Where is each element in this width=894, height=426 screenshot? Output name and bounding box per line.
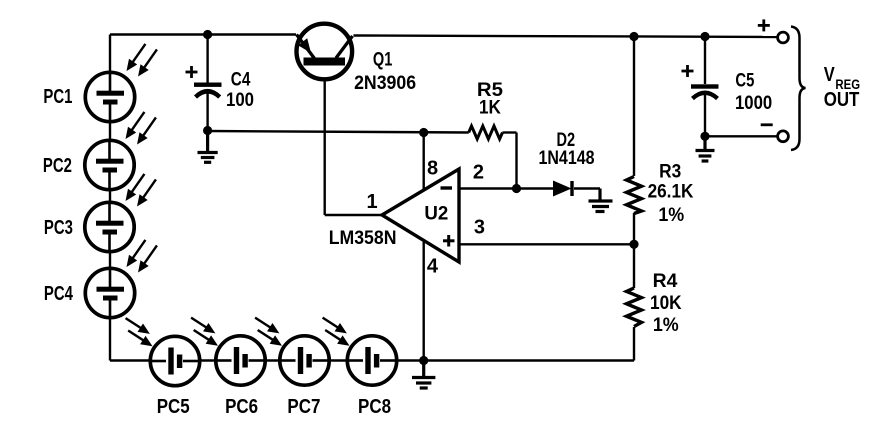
wire pin3 to R3R4 junction bbox=[459, 243, 634, 245]
output brace bbox=[791, 27, 806, 151]
transistor Q1 bbox=[297, 24, 353, 80]
svg-text:100: 100 bbox=[226, 90, 254, 111]
ground at pin4 bbox=[412, 361, 435, 389]
photocell PC2 bbox=[85, 140, 134, 189]
light arrows PC2 bbox=[121, 109, 148, 142]
light arrows PC5 bbox=[123, 314, 153, 338]
resistor R3 bbox=[627, 177, 642, 214]
svg-text:1000: 1000 bbox=[735, 93, 772, 114]
diode D2 bbox=[553, 181, 574, 197]
photocell PC4 bbox=[85, 268, 134, 317]
wire diode cathode to ground bbox=[574, 187, 600, 189]
plus sign inside bbox=[443, 235, 455, 247]
wire C4 top lead bbox=[206, 35, 208, 83]
wire C5 node to minus terminal bbox=[705, 135, 778, 137]
wire top rail right bbox=[354, 36, 784, 38]
svg-text:1%: 1% bbox=[653, 315, 679, 336]
photocell PC5 bbox=[150, 336, 199, 385]
svg-text:1K: 1K bbox=[479, 98, 501, 119]
svg-text:1%: 1% bbox=[658, 205, 684, 226]
svg-text:Q1: Q1 bbox=[373, 50, 393, 71]
svg-text:R4: R4 bbox=[653, 271, 678, 292]
svg-text:V: V bbox=[824, 64, 836, 86]
wire C4 bottom lead bbox=[206, 92, 208, 131]
svg-text:PC7: PC7 bbox=[287, 396, 320, 418]
svg-text:3: 3 bbox=[474, 217, 485, 239]
terminal minus bbox=[778, 131, 789, 142]
svg-text:PC4: PC4 bbox=[44, 283, 74, 305]
photocell PC8 bbox=[347, 336, 396, 385]
svg-text:1: 1 bbox=[366, 191, 377, 213]
base bar bbox=[304, 58, 346, 66]
wire C5 bottom lead bbox=[704, 94, 706, 136]
wire R4 top lead bbox=[633, 244, 635, 288]
emitter with arrow bbox=[297, 35, 315, 59]
wire pin4 vertical bbox=[423, 240, 425, 361]
junction dot C4 bottom bbox=[203, 126, 212, 135]
junction dot R5 D2 pin2 bbox=[512, 184, 521, 193]
svg-text:PC1: PC1 bbox=[43, 86, 72, 108]
capacitor C5 bbox=[691, 84, 719, 98]
svg-text:U2: U2 bbox=[424, 204, 448, 225]
svg-text:1N4148: 1N4148 bbox=[539, 148, 595, 169]
light arrows PC3 bbox=[121, 171, 148, 204]
wire Q1 base vertical bbox=[324, 66, 326, 216]
svg-text:PC8: PC8 bbox=[358, 396, 391, 418]
junction dot C4 top bbox=[203, 30, 212, 39]
wire R3 bottom lead bbox=[633, 213, 635, 244]
ground after D2 bbox=[589, 189, 613, 212]
junction dot pin4 ground bbox=[419, 356, 428, 365]
plus sign output bbox=[758, 19, 770, 31]
svg-text:PC2: PC2 bbox=[43, 155, 72, 177]
wire op-amp output to Q1 base bbox=[325, 214, 382, 216]
resistor R5 bbox=[469, 126, 503, 139]
svg-text:PC3: PC3 bbox=[44, 217, 73, 239]
svg-text:LM358N: LM358N bbox=[329, 228, 397, 249]
photocell PC7 bbox=[280, 336, 329, 385]
wire C5 top lead bbox=[704, 37, 706, 85]
photocell PC3 bbox=[85, 202, 134, 251]
ground below C5 bbox=[696, 136, 715, 161]
plus sign C5 polarity bbox=[682, 65, 694, 77]
light arrows PC1 bbox=[122, 41, 149, 74]
minus sign output bbox=[761, 123, 773, 126]
svg-text:R3: R3 bbox=[659, 162, 681, 183]
capacitor C4 bbox=[194, 83, 222, 98]
junction dot pin8 rail bbox=[419, 128, 428, 137]
junction dot C5 bottom bbox=[700, 132, 709, 141]
resistor R4 bbox=[627, 288, 642, 327]
svg-text:C5: C5 bbox=[735, 71, 754, 92]
collector diagonal bbox=[336, 36, 353, 58]
wire ground rail C4 to R5 bbox=[208, 131, 469, 133]
wire left vertical PC string bbox=[109, 35, 111, 361]
ground below C4 bbox=[198, 131, 218, 163]
svg-text:10K: 10K bbox=[650, 293, 682, 314]
svg-text:PC6: PC6 bbox=[225, 396, 258, 418]
svg-text:2: 2 bbox=[473, 162, 484, 184]
svg-text:4: 4 bbox=[427, 256, 439, 278]
svg-text:8: 8 bbox=[427, 158, 438, 180]
plus sign C4 polarity bbox=[186, 66, 198, 78]
wire top rail left bbox=[110, 33, 296, 35]
light arrows PC4 bbox=[122, 237, 149, 270]
svg-text:C4: C4 bbox=[231, 70, 251, 91]
junction dot R3 R4 pin3 bbox=[629, 240, 638, 249]
light arrows PC7 bbox=[252, 313, 282, 337]
junction dot C5 top bbox=[700, 32, 709, 41]
wire R4 bottom lead bbox=[633, 327, 635, 361]
terminal plus bbox=[778, 32, 789, 43]
wire R5 right lead bbox=[503, 131, 517, 133]
svg-text:OUT: OUT bbox=[824, 89, 860, 111]
wire pin2 to diode bbox=[459, 187, 553, 189]
light arrows PC6 bbox=[188, 313, 218, 337]
junction dot R3 top bbox=[629, 32, 638, 41]
svg-text:2N3906: 2N3906 bbox=[354, 73, 416, 94]
wire R3 top lead bbox=[633, 37, 635, 177]
photocell PC1 bbox=[85, 72, 134, 121]
op-amp U2 bbox=[382, 169, 459, 262]
wire bottom rail bbox=[110, 359, 634, 361]
wire pin8 vertical bbox=[423, 133, 425, 192]
minus sign inside bbox=[441, 186, 453, 189]
wire R5 down to pin2 node bbox=[515, 133, 517, 189]
light arrows PC8 bbox=[320, 313, 350, 337]
photocell PC6 bbox=[216, 336, 265, 385]
svg-text:26.1K: 26.1K bbox=[648, 182, 694, 203]
svg-text:PC5: PC5 bbox=[157, 396, 190, 418]
